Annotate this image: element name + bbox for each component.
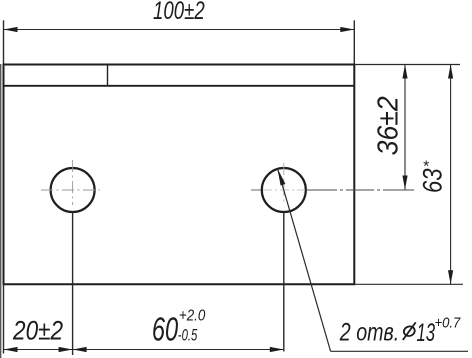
svg-text:100±2: 100±2 [153, 0, 205, 25]
svg-text:13: 13 [417, 320, 436, 347]
svg-text:36±2: 36±2 [371, 96, 403, 156]
hole 2 center extension line down [283, 212, 285, 352]
bottom dimension line (20 and 60 chain) [4, 349, 284, 351]
right edge extension above plate [353, 20, 355, 64]
arrow left of 60 [73, 347, 87, 352]
hole 1 horizontal centerline [41, 189, 100, 191]
arrow bottom of 63* [448, 270, 453, 284]
arrow top of 63* [448, 65, 453, 79]
svg-text:60: 60 [152, 311, 178, 348]
scan border artifact left edge [0, 64, 2, 358]
plate outline [4, 65, 355, 285]
left edge extension below plate [3, 284, 5, 353]
arrow left of 20±2 [4, 347, 18, 352]
dimension line 100±2 [4, 29, 355, 31]
arrow right of 60 [270, 347, 284, 352]
leader line to hole 2 [278, 169, 331, 352]
leader shelf line [331, 350, 468, 352]
svg-text:20±2: 20±2 [12, 316, 63, 346]
diameter symbol [403, 322, 416, 340]
hole 2 circle [262, 168, 306, 212]
bottom edge extension to the right [354, 283, 463, 285]
svg-text:+0.7: +0.7 [435, 315, 462, 331]
svg-text:2 отв.: 2 отв. [339, 319, 399, 347]
arrow right of 100±2 [340, 27, 354, 32]
leader arrow at hole 2 [278, 169, 286, 186]
svg-text:*: * [423, 159, 430, 176]
svg-text:+2.0: +2.0 [179, 308, 205, 325]
hole 1 circle [51, 168, 95, 212]
top edge extension to the right [354, 64, 460, 66]
left edge extension above plate [3, 20, 5, 64]
arrow right of 20±2 [59, 347, 73, 352]
plate upper inner edge line [4, 85, 355, 87]
hole 2 horizontal centerline extended right (extension for 36 dim) [251, 189, 261, 191]
dimension line 36±2 [404, 65, 406, 190]
seam tick on upper band [107, 65, 109, 86]
svg-text:-0.5: -0.5 [178, 326, 198, 345]
dimension line 63* [450, 65, 452, 285]
hole 1 center extension line down [72, 211, 74, 355]
arrow top of 36±2 [402, 65, 407, 79]
hole 1 vertical centerline [72, 160, 74, 205]
arrow left of 100±2 [4, 27, 18, 32]
hole 2 vertical centerline [283, 163, 285, 205]
arrow bottom of 36±2 [402, 176, 407, 190]
